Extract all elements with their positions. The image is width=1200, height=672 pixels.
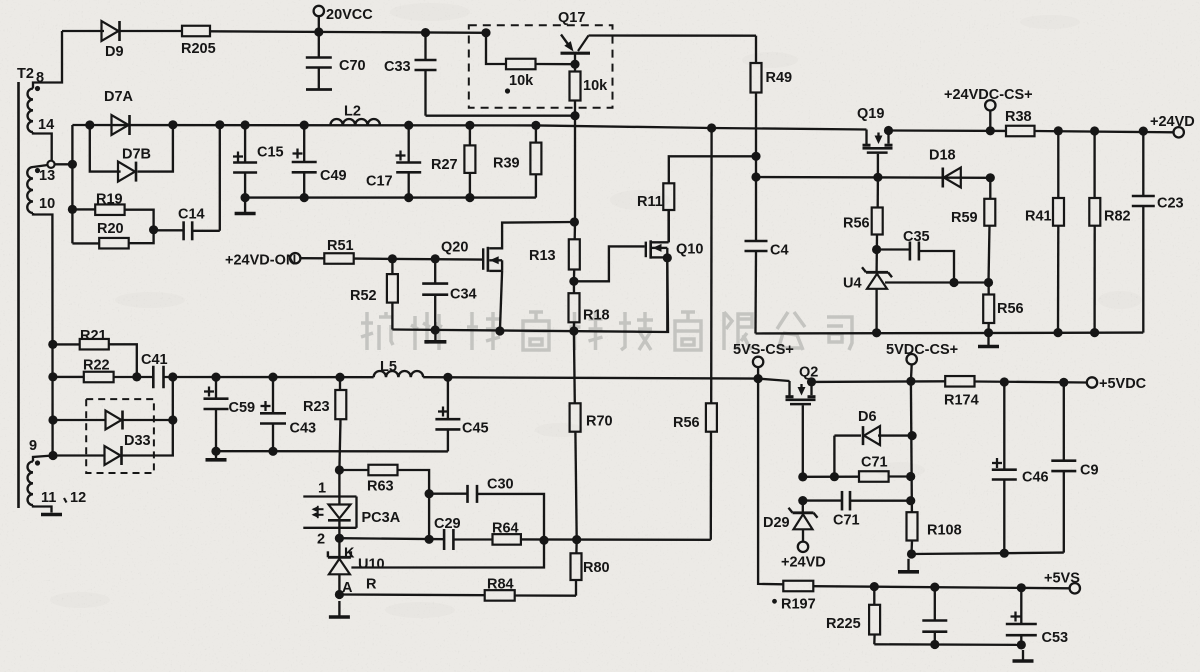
label 10k horizontal (509, 73, 534, 89)
wire cs rail (756, 331, 1144, 334)
diode D7A (112, 115, 130, 135)
resistor R82 (1089, 131, 1100, 333)
node mbr-R18 (569, 326, 578, 335)
wire R22 to C41 (114, 376, 154, 378)
node Q2 source (807, 377, 816, 386)
wire C71box right (889, 475, 911, 477)
label L2 (344, 104, 361, 120)
resistor R84 (485, 590, 515, 601)
svg-text:C43: C43 (290, 421, 317, 437)
wire R108 column (911, 381, 912, 512)
node D18 anode (986, 173, 995, 182)
svg-text:D29: D29 (763, 515, 790, 531)
label C41 (141, 352, 168, 368)
label R13 (529, 248, 556, 264)
svg-text:12: 12 (70, 490, 86, 506)
wire D9 to R205 (121, 30, 183, 32)
wire R197 right (813, 586, 1070, 588)
node Q20 drain junction (570, 217, 579, 226)
wire R11 to Q10 drain (668, 210, 670, 242)
ground at U10 (329, 601, 350, 617)
node 5vs-Cmid (930, 583, 939, 592)
svg-text:5VDC-CS+: 5VDC-CS+ (886, 342, 958, 358)
label R52 (350, 288, 377, 304)
svg-text:Q17: Q17 (558, 10, 585, 26)
label R27 (431, 157, 458, 173)
svg-text:D33: D33 (124, 433, 151, 449)
ground at C15 (235, 200, 256, 214)
svg-text:R82: R82 (1104, 209, 1131, 225)
svg-text:D6: D6 (858, 409, 877, 425)
node Q10 source (663, 253, 672, 262)
svg-text:R63: R63 (367, 479, 394, 495)
resistor R225 (869, 587, 880, 645)
wire to R56mid vertical (710, 432, 713, 540)
label Q2 (799, 365, 818, 381)
plus C59 (204, 387, 214, 397)
svg-text:C70: C70 (339, 58, 366, 74)
svg-text:R197: R197 (781, 597, 816, 613)
label C49 (320, 168, 347, 184)
plus C17 (396, 151, 406, 161)
resistor R174 (945, 376, 974, 387)
wire C33 bottom to Q17 emitter res (426, 115, 576, 117)
label pin 14 (38, 117, 54, 133)
wire 5VDC-CS stub (910, 364, 913, 381)
label R197 (781, 597, 816, 613)
svg-text:5VS-CS+: 5VS-CS+ (733, 342, 794, 358)
node Q17 emitter-10k (570, 60, 579, 69)
node rail-C49 (300, 121, 309, 130)
svg-text:C49: C49 (320, 168, 347, 184)
transformer T2 winding pin13-10 (27, 167, 33, 213)
label K (344, 546, 355, 562)
label C70 (339, 58, 366, 74)
label 5VS-CS+ (733, 342, 794, 358)
node C30 left (425, 489, 434, 498)
label C71 box (861, 455, 888, 471)
wire 5vs bottom rail (874, 643, 1021, 646)
node rail-R56 branch (707, 123, 716, 132)
transformer T2 winding pin9-11,12 (28, 462, 33, 506)
label R56 upper (843, 216, 870, 232)
watermark band (361, 312, 852, 350)
terminal 5VDC-CS+ (907, 354, 917, 364)
node 5rail-R108col (906, 377, 915, 386)
svg-text:C4: C4 (770, 243, 789, 259)
resistor R56 lower (983, 283, 994, 333)
svg-text:10k: 10k (509, 73, 534, 89)
zener D29 (789, 501, 818, 542)
wire Q19 to 24VDC-CS node (889, 129, 1007, 132)
capacitor C43 (260, 377, 286, 451)
svg-text:R64: R64 (492, 521, 519, 537)
resistor R64 (493, 534, 521, 545)
capacitor C23 (1132, 131, 1155, 333)
svg-text:D7B: D7B (122, 147, 151, 163)
node 5vs-R225 (870, 582, 879, 591)
wire R205 to C33 area (210, 31, 486, 33)
dashed box Q17 (469, 25, 613, 107)
label R23 (303, 399, 330, 415)
label C9 (1080, 463, 1099, 479)
node C33 top (421, 28, 430, 37)
svg-text:+24VDC-CS+: +24VDC-CS+ (944, 87, 1033, 103)
label C15 (257, 145, 284, 161)
capacitor C71 cap (803, 491, 911, 511)
capacitor C59 (204, 377, 229, 451)
resistor R56 mid (706, 128, 717, 432)
wire D6 line (834, 434, 861, 436)
wire U4 ref line (885, 281, 989, 283)
label C4 (770, 243, 789, 259)
node rail-R39 (531, 121, 540, 130)
label Q17 (558, 10, 585, 26)
label R84 (487, 577, 514, 593)
diode D9 (102, 21, 120, 41)
wire term to R51 (300, 257, 324, 259)
label R51 (327, 238, 354, 254)
capacitor C34 (422, 259, 448, 330)
label D7A (104, 89, 134, 105)
wire R20 right (129, 230, 154, 243)
svg-text:T2: T2 (17, 66, 34, 82)
wire out rail mid (423, 377, 789, 381)
node rail-R27 (465, 121, 474, 130)
wire gate drive Q10 (574, 246, 645, 281)
node obr-C43 (268, 447, 277, 456)
node 5rail-C46 (1000, 377, 1009, 386)
label pin 2 (317, 532, 325, 548)
resistor R51 (324, 253, 353, 264)
label R64 (492, 521, 519, 537)
svg-text:R70: R70 (586, 414, 613, 430)
node 5vs-C53 (1017, 583, 1026, 592)
svg-text:PC3A: PC3A (362, 510, 401, 526)
node rail-D7A out (168, 120, 177, 129)
svg-text:C41: C41 (141, 352, 168, 368)
svg-text:Q2: Q2 (799, 365, 818, 381)
node lv-R21 (48, 340, 57, 349)
label R174 (944, 393, 979, 409)
resistor R11 (663, 183, 674, 210)
diode D33 lower (105, 446, 122, 465)
svg-text:R56: R56 (673, 415, 700, 431)
diode D7B (118, 162, 136, 182)
node lv-D33a (48, 415, 57, 424)
wire C14 up to rail (219, 125, 221, 231)
label D33 (124, 433, 151, 449)
node rail3-C23 (1139, 127, 1148, 136)
svg-text:R174: R174 (944, 393, 979, 409)
node csr-gnd (984, 328, 993, 337)
wire Q17 box left branch (486, 33, 506, 64)
label C33 (384, 59, 411, 75)
resistor R41 (1053, 131, 1064, 333)
svg-text:U4: U4 (843, 276, 862, 292)
svg-text:R84: R84 (487, 577, 514, 593)
wire 10k to emitter node (536, 63, 576, 66)
svg-text:C53: C53 (1042, 630, 1069, 646)
label R41 (1025, 209, 1052, 225)
node 5br-R108 (907, 549, 916, 558)
label R49 (766, 70, 793, 86)
terminal 5VS-CS+ (753, 357, 763, 367)
label R20 (97, 221, 124, 237)
node Q2g-C71cap (798, 496, 807, 505)
wire Q2 to R174 (812, 380, 946, 383)
node rail3-R82 (1090, 126, 1099, 135)
node onrow-R52 (388, 254, 397, 263)
capacitor C49 (292, 125, 317, 198)
label R39 (493, 156, 520, 172)
optocoupler PC3A (303, 470, 356, 538)
svg-text:R56: R56 (997, 301, 1024, 317)
wire R21 right (109, 344, 137, 377)
node csr-R41 (1053, 328, 1062, 337)
node onrow-C34 (431, 254, 440, 263)
transformer T2 winding pin8-14 (28, 89, 33, 133)
wire R20 left (72, 242, 99, 244)
dashed box D33 (86, 399, 154, 473)
node C71cap-vert (906, 496, 915, 505)
svg-text:R38: R38 (1005, 109, 1032, 125)
label C14 (178, 206, 205, 222)
label Q10 (676, 242, 703, 258)
node D33-C41 vertical (168, 415, 177, 424)
ground at C59 (206, 454, 227, 460)
label R205 (181, 41, 216, 57)
wire D6 left vert (833, 436, 835, 477)
svg-text:C14: C14 (178, 206, 205, 222)
wire R49 to R11 (669, 156, 756, 183)
label R70 (586, 414, 613, 430)
label C34 (450, 287, 477, 303)
diode D33 upper (106, 411, 123, 430)
wire 24VDC-CS stub (989, 110, 991, 131)
node R13-R18 (569, 277, 578, 286)
ground at winding 11,12 (41, 513, 62, 517)
node Q2g-C71box (798, 472, 807, 481)
label +5VS (1044, 571, 1080, 587)
plus C53 (1011, 612, 1021, 622)
label pin 13 (39, 168, 55, 184)
label R38 (1005, 109, 1032, 125)
plus C43 (261, 401, 271, 411)
svg-text:R39: R39 (493, 156, 520, 172)
label 5VDC-CS+ (886, 342, 958, 358)
resistor R18 (569, 281, 580, 331)
node R49-R11 junction (751, 152, 760, 161)
label pin 9 (29, 438, 37, 454)
svg-text:10k: 10k (583, 78, 608, 94)
node C71box-vert (906, 472, 915, 481)
node R80 top (572, 535, 581, 544)
svg-text:14: 14 (38, 117, 54, 133)
svg-text:C59: C59 (229, 400, 256, 416)
node U10 anode (335, 590, 344, 599)
capacitor C45 (435, 377, 460, 451)
label C53 (1042, 630, 1069, 646)
wire D18 line (756, 176, 990, 179)
transformer T2 core (17, 82, 20, 508)
shunt regulator U4 (862, 267, 892, 289)
resistor R20 (99, 238, 129, 249)
node 5vsbr-C53 (1017, 640, 1026, 649)
label C43 (290, 421, 317, 437)
svg-text:+5VDC: +5VDC (1099, 376, 1147, 392)
wire D7B to rail (138, 125, 173, 172)
transistor Q20 (482, 222, 574, 331)
label L5 (380, 359, 397, 375)
label C30 (487, 477, 514, 493)
label 20VCC (326, 7, 373, 23)
wire 5VS feed vertical (758, 379, 783, 585)
wire vertical x73 (71, 125, 73, 243)
wire C71 box line (803, 476, 859, 478)
capacitor C15 (233, 125, 257, 198)
inductor L2 (330, 119, 380, 125)
svg-text:C35: C35 (903, 229, 930, 245)
svg-text:R19: R19 (96, 192, 123, 208)
wire D6 right (878, 434, 912, 436)
svg-text:R13: R13 (529, 248, 556, 264)
label 10k vertical (583, 78, 608, 94)
svg-text:L2: L2 (344, 104, 361, 120)
label D9 (105, 44, 124, 60)
svg-text:D9: D9 (105, 44, 124, 60)
wire pin13 winding to junction (33, 165, 48, 167)
node pin2 (335, 534, 344, 543)
svg-text:K: K (344, 546, 355, 562)
svg-text:8: 8 (36, 70, 44, 86)
svg-text:Q20: Q20 (441, 240, 468, 256)
svg-text:U10: U10 (358, 557, 385, 573)
svg-text:R: R (366, 577, 377, 593)
node fbr-C15 (241, 193, 250, 202)
label +24VD (1150, 114, 1195, 130)
label +5VDC (1099, 376, 1147, 392)
label pin 8 (36, 70, 44, 86)
node R64-C30 (539, 536, 548, 545)
wire pin13 junction to vertical (55, 163, 73, 165)
wire D33 upper line (53, 419, 106, 421)
wire mid bottom rail (392, 258, 668, 332)
wire pin14 down to junction (33, 132, 52, 161)
wire U10 ref (351, 540, 544, 567)
wire R108 bottom (910, 541, 913, 555)
node R49-C4 junction (751, 172, 760, 181)
wire R84 line (339, 593, 484, 596)
svg-text:+24VD-ON: +24VD-ON (225, 253, 296, 269)
svg-text:R20: R20 (97, 221, 124, 237)
svg-text:R52: R52 (350, 288, 377, 304)
resistor 10k vertical (570, 64, 581, 222)
node lv-D33b (48, 451, 57, 460)
resistor R56 upper (872, 177, 883, 272)
svg-text:R41: R41 (1025, 209, 1052, 225)
svg-text:R22: R22 (83, 358, 110, 374)
wire R63 left (339, 469, 368, 471)
wire D33 lower line (53, 454, 105, 456)
wire 5VS-CS stub (757, 367, 759, 379)
label R108 (927, 523, 962, 539)
label R63 (367, 479, 394, 495)
node orail-5VSCS (754, 374, 763, 383)
svg-text:2: 2 (317, 532, 325, 548)
label D6 (858, 409, 877, 425)
plus C49 (293, 149, 303, 159)
svg-text:L5: L5 (380, 359, 397, 375)
svg-text:R18: R18 (583, 308, 610, 324)
node rail-C17 (404, 121, 413, 130)
svg-text:C30: C30 (487, 477, 514, 493)
label PC3A (362, 510, 401, 526)
plus C46 (992, 458, 1002, 468)
wire top rail left (62, 30, 104, 32)
label U4 (843, 276, 862, 292)
plus C15 (233, 152, 243, 162)
wire Q17 collector to R49 (589, 34, 757, 37)
wire second rail (72, 125, 866, 130)
node rail-C14 (215, 120, 224, 129)
ground at C53 (1013, 650, 1034, 661)
svg-text:13: 13 (39, 168, 55, 184)
resistor 10k horizontal (506, 59, 536, 70)
svg-text:C71: C71 (833, 513, 860, 529)
label D29 (763, 515, 790, 531)
label R56 mid (673, 415, 700, 431)
label C71 cap (833, 513, 860, 529)
node Q17 branch top (481, 28, 490, 37)
ground at R108 (898, 559, 919, 572)
label D18 (929, 148, 956, 164)
svg-text:9: 9 (29, 438, 37, 454)
label Q20 (441, 240, 468, 256)
node csr-U4 (872, 328, 881, 337)
capacitor C33 (415, 33, 437, 116)
node D6 right (908, 431, 917, 440)
node Q20 source-rail (495, 326, 504, 335)
wire R19 right (125, 210, 154, 230)
node rail-D7B (85, 120, 94, 129)
node R21-R22 (132, 372, 141, 381)
wire R51 to Q20 gate (354, 259, 482, 260)
node rail3-R41 (1054, 126, 1063, 135)
svg-text:+24VD: +24VD (1150, 114, 1195, 130)
label R59 (951, 210, 978, 226)
ground at cs rail (978, 336, 999, 347)
pin 13/14 junction circle (47, 161, 54, 168)
label C59 (229, 400, 256, 416)
svg-text:10: 10 (39, 196, 55, 212)
wire D33 lower right (123, 377, 173, 456)
terminal +24VD-ON (290, 253, 300, 263)
label R19 (96, 192, 123, 208)
label R22 (83, 358, 110, 374)
svg-text:C23: C23 (1157, 196, 1184, 212)
node pin2-C30vert (425, 535, 434, 544)
svg-text:C29: C29 (434, 516, 461, 532)
resistor R52 (387, 259, 398, 330)
label A (342, 580, 353, 596)
node lv-R22 (48, 372, 57, 381)
stray mark 2 (772, 599, 777, 604)
wire D7B branch (90, 125, 121, 172)
svg-text:1: 1 (318, 481, 326, 497)
svg-text:C17: C17 (366, 174, 393, 190)
label +24VD bottom (781, 555, 826, 571)
